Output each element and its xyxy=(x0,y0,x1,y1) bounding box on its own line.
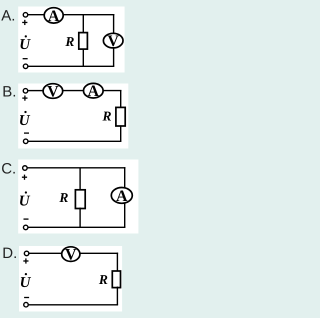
wire: ammeter to top-right corner (B) xyxy=(103,90,121,92)
wire: resistor to bottom rail (C) xyxy=(79,208,81,228)
svg-text:A.: A. xyxy=(1,8,15,25)
minus sign (option D) xyxy=(24,297,29,298)
panel D background xyxy=(19,246,122,312)
wire: ammeter to top-right corner (A) xyxy=(63,14,114,16)
terminal - (option B) xyxy=(23,139,28,144)
terminal + (option C) xyxy=(23,166,28,171)
wire: voltmeter to top-right corner (D) xyxy=(80,252,118,254)
panel A background xyxy=(18,7,124,73)
panel B background xyxy=(18,84,128,149)
svg-text:R: R xyxy=(64,34,74,49)
terminal + (option D) xyxy=(24,251,29,256)
wire: right branch top (C) xyxy=(124,167,126,188)
terminal - (option A) xyxy=(23,64,28,69)
resistor R (option B) xyxy=(116,107,125,126)
minus sign (option A) xyxy=(23,58,28,59)
wire: right branch bottom (A) xyxy=(113,47,115,66)
voltmeter V (option A) xyxy=(103,33,123,50)
svg-text:U: U xyxy=(19,37,31,53)
terminal - (option D) xyxy=(24,302,29,307)
panel C background xyxy=(18,160,138,234)
wire: voltmeter to ammeter (B) xyxy=(63,90,84,92)
wire: right branch top to resistor (D) xyxy=(116,253,118,272)
minus sign (option B) xyxy=(24,132,29,133)
svg-text:V: V xyxy=(47,83,59,100)
wire: bottom rail (D) xyxy=(28,304,118,306)
source voltage U-dot (option A) xyxy=(19,35,31,53)
ammeter A (option C) xyxy=(111,188,132,206)
wire: top terminal to voltmeter (D) xyxy=(28,252,62,254)
wire: resistor to bottom rail (D) xyxy=(116,287,118,305)
source voltage U-dot (option C) xyxy=(19,191,31,209)
svg-text:R: R xyxy=(98,272,108,287)
svg-text:R: R xyxy=(58,190,68,205)
resistor R (option A) xyxy=(79,33,88,50)
svg-text:U: U xyxy=(19,113,31,129)
plus sign (option C) xyxy=(22,175,27,180)
source voltage U-dot (option B) xyxy=(19,111,31,129)
minus sign (option C) xyxy=(24,218,29,219)
svg-text:U: U xyxy=(19,194,31,210)
ammeter A (option A) xyxy=(44,8,63,25)
terminal - (option C) xyxy=(23,225,28,230)
wire: bottom rail (C) xyxy=(28,226,125,228)
svg-text:B.: B. xyxy=(2,84,16,101)
resistor R (option C) xyxy=(75,190,85,209)
wire: junction down to resistor (A) xyxy=(82,15,84,34)
plus sign (option D) xyxy=(23,258,28,263)
svg-text:C.: C. xyxy=(1,161,16,178)
svg-text:V: V xyxy=(65,247,77,264)
svg-text:A: A xyxy=(116,188,128,205)
ammeter A (option B) xyxy=(84,83,104,100)
wire: bottom rail (A) xyxy=(28,65,114,67)
svg-text:R: R xyxy=(101,109,111,124)
wire: right branch top to resistor (B) xyxy=(120,90,122,108)
wire: resistor to bottom rail (B) xyxy=(120,125,122,141)
plus sign (option A) xyxy=(22,20,27,25)
resistor R (option D) xyxy=(112,271,120,288)
voltmeter V (option B) xyxy=(43,83,63,100)
svg-text:D.: D. xyxy=(2,245,17,262)
wire: junction down to resistor (C) xyxy=(79,168,81,191)
svg-text:U: U xyxy=(20,275,32,291)
wire: right branch bottom (C) xyxy=(124,203,126,228)
wire: bottom rail (B) xyxy=(28,140,121,142)
wire: right branch top (A) xyxy=(113,14,115,34)
wire: top rail (C) xyxy=(28,167,126,169)
wire: resistor to bottom rail (A) xyxy=(82,49,84,67)
wire: top terminal to voltmeter (B) xyxy=(28,90,43,92)
svg-text:A: A xyxy=(48,8,60,25)
voltmeter V (option D) xyxy=(62,247,80,264)
terminal + (option A) xyxy=(23,13,28,17)
source voltage U-dot (option D) xyxy=(20,273,32,291)
plus sign (option B) xyxy=(22,96,27,101)
wire: top terminal to ammeter (A) xyxy=(28,14,45,16)
svg-text:A: A xyxy=(88,83,100,100)
terminal + (option B) xyxy=(23,89,28,94)
